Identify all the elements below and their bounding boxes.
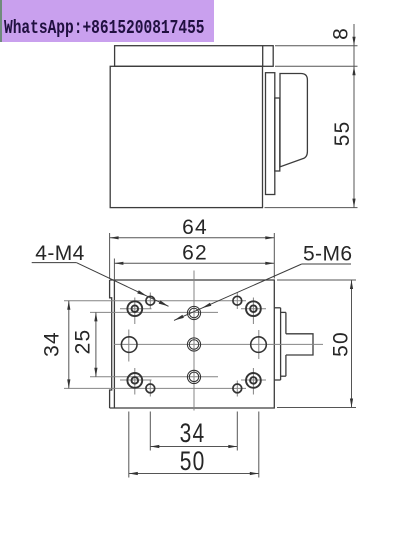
M6 tapped hole center-bottom inner	[189, 372, 199, 382]
crosshair vertical middle-left hole	[128, 330, 130, 362]
arrow 62 right	[265, 262, 274, 265]
extension line dim 8/55 shared	[275, 65, 358, 67]
crosshair vertical M4 top-right	[236, 293, 238, 310]
extension line 62 left	[113, 259, 115, 281]
arrow 34 bottom left	[150, 445, 159, 448]
svg-text:50: 50	[180, 446, 206, 476]
extension line 50 right bottom	[277, 407, 356, 409]
extension line 50 bottom right	[258, 412, 260, 478]
counterbored hole top-left inner	[132, 305, 139, 312]
extension line 64/62 right	[273, 233, 275, 279]
centerline M4 top row	[64, 300, 246, 302]
extension line 34 bottom right	[236, 412, 238, 451]
WhatsApp banner text	[4, 19, 205, 39]
through hole middle-left	[121, 337, 137, 353]
svg-text:34: 34	[41, 331, 64, 357]
extension line 64 left	[109, 233, 111, 279]
crosshair vertical middle-right hole	[258, 330, 260, 359]
M4 tapped hole top-right	[233, 296, 242, 305]
svg-text:55: 55	[331, 121, 354, 147]
right step 2 top	[281, 311, 286, 313]
output shaft	[286, 334, 313, 355]
crosshair vertical corner left top	[134, 298, 136, 325]
leader 5-M6 underline	[302, 263, 351, 265]
svg-text:62: 62	[182, 242, 208, 265]
leader 4-M4 arrow at hole	[137, 290, 147, 296]
counterbored hole top-right outer	[246, 301, 261, 316]
front view inner left edge	[113, 280, 115, 408]
crosshair corner hole bottom-right	[241, 379, 266, 381]
through hole middle-right	[251, 337, 267, 353]
crosshair corner hole bottom-left	[120, 379, 152, 381]
M4 tapped hole bottom-left	[146, 384, 155, 393]
crosshair vertical M4 bottom-right	[236, 381, 238, 397]
centerline center column	[193, 271, 195, 411]
front view left edge with jogs	[110, 280, 112, 408]
side view plate seam line	[262, 46, 264, 67]
svg-text:5-M6: 5-M6	[303, 242, 352, 265]
dimension line 8 and 55 vertical	[353, 24, 355, 208]
extension line dim 55 bottom	[265, 207, 358, 209]
centerline middle row	[114, 343, 323, 345]
crosshair vertical M4 top-left	[149, 293, 151, 310]
front view body outline	[110, 280, 275, 408]
arrow dim 55 down	[352, 199, 355, 208]
dimension line 34 left	[68, 301, 70, 389]
counterbored hole bottom-right outer	[246, 373, 261, 388]
arrow 64 right	[265, 236, 274, 239]
extension line 50 right top	[277, 279, 356, 281]
right step 2 edge upper	[285, 312, 287, 333]
crosshair corner hole top-right	[241, 308, 266, 310]
dimension line 62	[114, 262, 274, 264]
counterbored hole top-left outer	[127, 301, 142, 316]
arrow 34 bottom right	[228, 445, 237, 448]
svg-text:50: 50	[330, 331, 353, 357]
extension line 50 bottom left	[128, 412, 130, 478]
arrow 50 bottom left	[129, 472, 138, 475]
M6 tapped hole center-top inner	[189, 308, 199, 318]
crosshair vertical corner right top	[252, 298, 254, 325]
leader 5-M6 arrow at hole	[202, 303, 212, 309]
arrow 62 left	[114, 262, 123, 265]
side view main body	[110, 66, 262, 207]
WhatsApp banner	[0, 0, 214, 42]
extension line dim 8 top	[275, 45, 358, 47]
counterbored hole top-right inner	[250, 305, 257, 312]
arrow 50 right top	[350, 280, 353, 289]
side view top plate	[115, 46, 274, 67]
arrow dim 8 down	[352, 37, 355, 46]
arrow 34 left top	[67, 301, 70, 310]
arrow 34 left bottom	[67, 379, 70, 388]
M6 tapped hole center-bottom outer	[187, 370, 200, 383]
crosshair vertical corner right bottom	[252, 368, 254, 395]
dimension line 25 left	[95, 312, 97, 376]
dimension line 34 bottom	[150, 446, 237, 448]
arrow 25 top	[94, 312, 97, 321]
counterbored hole bottom-left inner	[132, 377, 139, 384]
right step 2 edge lower	[285, 355, 287, 376]
arrow dim 55 up	[352, 66, 355, 75]
svg-text:25: 25	[72, 329, 95, 355]
crosshair vertical M4 bottom-left	[149, 381, 151, 397]
dimension line 64	[110, 237, 275, 239]
dimension line 50 right	[351, 280, 353, 408]
centerline M6 bottom row / ext 25	[90, 376, 218, 378]
side view knob	[280, 74, 307, 167]
M6 tapped hole center-middle inner	[189, 340, 199, 350]
svg-text:4-M4: 4-M4	[35, 242, 84, 265]
dimension line 50 bottom	[129, 473, 259, 475]
leader 5-M6 diagonal	[174, 264, 302, 320]
centerline M6 top row / ext 25	[90, 311, 218, 313]
M4 tapped hole bottom-right	[233, 384, 242, 393]
svg-text:8: 8	[330, 27, 353, 40]
right step 1 edge	[280, 308, 282, 380]
arrow 64 left	[110, 236, 119, 239]
side view hub step	[275, 98, 280, 171]
leader 4-M4 underline	[32, 262, 77, 264]
svg-text:34: 34	[180, 419, 206, 449]
leader 4-M4 arrow end	[159, 300, 169, 306]
arrow 50 bottom right	[250, 472, 259, 475]
right step 1 bottom	[274, 379, 280, 381]
right step 1 top	[274, 307, 280, 309]
right step 2 bottom	[281, 375, 286, 377]
counterbored hole bottom-left outer	[127, 373, 142, 388]
leader 4-M4 diagonal	[76, 263, 168, 307]
extension line 34 bottom left	[149, 412, 151, 451]
arrow 50 right bottom	[350, 399, 353, 408]
M6 tapped hole center-top outer	[187, 306, 200, 319]
counterbored hole bottom-right inner	[250, 377, 257, 384]
arrow 25 bottom	[94, 368, 97, 377]
leader 5-M6 arrow end	[174, 315, 184, 321]
crosshair corner hole top-left	[120, 308, 152, 310]
svg-text:64: 64	[182, 216, 208, 239]
side view right flange plate	[266, 73, 275, 195]
centerline M4 bottom row	[64, 387, 246, 389]
M6 tapped hole center-middle outer	[187, 338, 200, 351]
M4 tapped hole top-left	[146, 296, 155, 305]
crosshair vertical corner left bottom	[134, 368, 136, 395]
